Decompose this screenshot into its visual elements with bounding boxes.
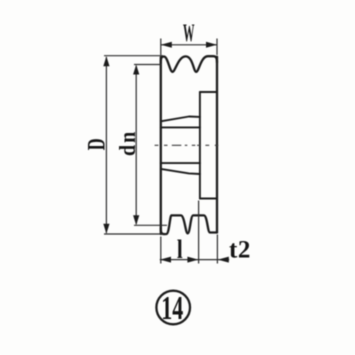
web upper taper line (161, 117, 200, 122)
dimension W line (161, 44, 217, 46)
extension line left face bottom (160, 237, 162, 264)
label l (177, 236, 183, 265)
pulley bottom groove profile (161, 215, 217, 234)
svg-text:dn: dn (115, 130, 141, 156)
extension line W right (216, 39, 218, 56)
extension line boss left bottom (198, 201, 200, 264)
arrow W right (206, 42, 217, 48)
pulley right face (216, 57, 218, 233)
label D (82, 138, 110, 150)
svg-text:l: l (177, 236, 183, 265)
web lower taper line (161, 169, 200, 174)
hub boss bottom edge (200, 198, 217, 200)
hub boss left face (199, 92, 201, 199)
arrow dn top (133, 65, 139, 75)
balloon circle 14 (156, 291, 190, 325)
extension line D bottom (104, 233, 163, 235)
extension line right face bottom (216, 235, 218, 264)
arrow D top (103, 56, 109, 66)
svg-text:t2: t2 (229, 235, 251, 263)
centerline (155, 144, 219, 146)
svg-text:14: 14 (161, 289, 183, 327)
arrow l right (187, 257, 198, 263)
label W (183, 19, 195, 47)
extension line dn top (134, 64, 162, 66)
extension line D top (104, 55, 163, 57)
dimension dn line (135, 66, 137, 224)
svg-text:W: W (183, 19, 195, 47)
pulley left face (160, 57, 162, 234)
web upper lower line (161, 126, 200, 128)
extension line W left (160, 39, 162, 56)
arrow D bottom (103, 224, 109, 234)
dimension l and t2 line (160, 259, 229, 261)
arrow dn bottom (133, 215, 139, 225)
arrow W left (161, 42, 172, 48)
extension line dn bottom (134, 224, 167, 226)
svg-text:D: D (82, 138, 110, 150)
dimension D line (105, 57, 107, 233)
label dn (115, 130, 141, 156)
web lower upper line (161, 162, 200, 164)
arrow l left (160, 257, 171, 263)
arrow t2 (218, 257, 229, 263)
hub boss top edge (200, 91, 217, 93)
pulley top groove profile (161, 56, 217, 72)
balloon text 14 (161, 289, 183, 327)
label t2 (229, 235, 251, 263)
